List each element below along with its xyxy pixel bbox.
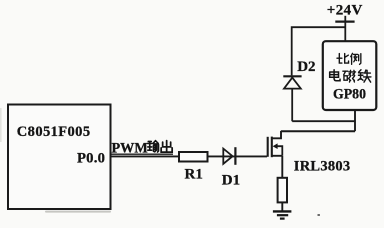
wire source down [281,156,283,178]
svg-text:R1: R1 [185,167,203,183]
MOSFET drain stub [272,131,281,138]
MOSFET body arrow [273,143,278,149]
glyph 电 [330,70,340,81]
resistor R1 [179,152,208,162]
MOSFET body stub [277,146,282,155]
wire resistor to ground [281,202,283,211]
svg-text:IRL3803: IRL3803 [294,158,351,174]
glyph 出 [161,141,172,153]
svg-text:PWM: PWM [112,140,148,156]
wire drain rail [281,130,355,132]
wire P0.0 to gate [110,155,267,157]
glyph 磁 [343,70,356,82]
wire D2 anode down [292,89,355,122]
svg-text:GP80: GP80 [333,87,366,103]
diode D2 triangle [284,78,301,89]
coil box (proportional electromagnet GP80) [323,41,377,110]
scan smudge below IC box [45,211,111,213]
diode D1 [223,149,232,164]
net label PWM output (PWM输出) underlined [111,153,173,155]
glyph 比 [337,54,349,63]
resistor R2 source to ground [278,178,287,203]
glyph 铁 [358,70,371,82]
MOSFET channel bar [271,137,273,158]
MOSFET Q1 IRL3803 gate bar [267,137,269,157]
scan speck bottom right [318,214,320,216]
supply stub [344,16,346,22]
wire +24V to coil box [344,22,346,42]
IC box U1 C8051F005 [8,105,111,210]
coil box bottom pin [354,110,356,131]
svg-text:C8051F005: C8051F005 [17,124,91,140]
supply rail tick [335,21,354,23]
glyph 例 [351,53,361,64]
svg-text:D2: D2 [297,59,315,75]
MOSFET source stub [272,155,282,157]
diode D2 cathode bar [283,75,301,77]
wire branch to D2 [292,27,346,75]
svg-text:D1: D1 [222,173,240,189]
scan smudge left edge [0,108,2,142]
ground [273,211,292,218]
svg-text:P0.0: P0.0 [77,151,105,167]
glyph 输 [148,141,159,152]
